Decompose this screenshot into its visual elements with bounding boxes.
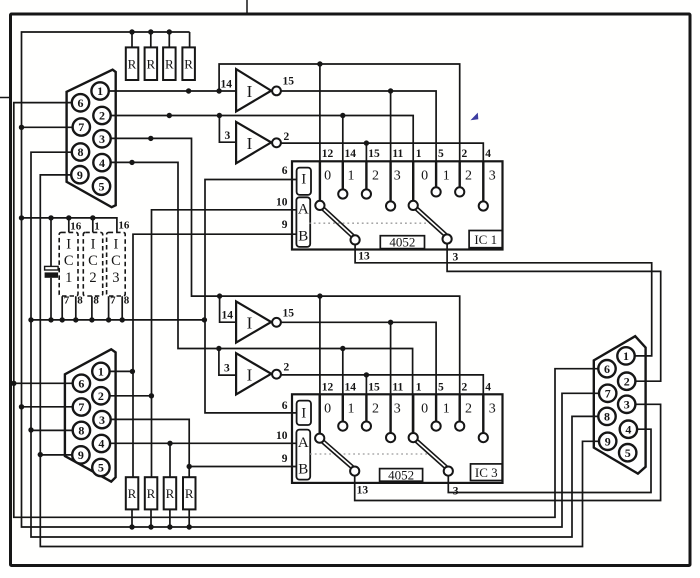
wire net: select A of IC1 from J2 pin2	[152, 210, 297, 477]
connector J2 pin 7	[73, 398, 90, 415]
IC3 name box	[471, 464, 503, 481]
wire net: J2 pin4 to select A of IC3	[109, 443, 296, 477]
junction J2 pin7 on left bus	[19, 404, 24, 409]
IC1 channel contacts	[315, 187, 488, 244]
IC1 A/B box	[296, 197, 310, 247]
junction R1 top on rail	[129, 29, 134, 34]
connector J1 pin 1	[91, 82, 108, 99]
IC3 channel digits	[324, 402, 496, 417]
resistor R5	[126, 477, 139, 509]
wire net: inhibit line pins 6 of both 4052	[205, 180, 297, 413]
resistor R2	[145, 47, 158, 80]
junction R5 bottom on ground rail	[129, 524, 134, 529]
capacitor C1	[45, 266, 59, 277]
wire net: J1 pin4 signal to lower half channels and inverter U4	[111, 162, 413, 433]
IC1 channel stubs	[320, 161, 483, 201]
junction Vcc bus left end	[19, 215, 24, 220]
resistor R1	[126, 47, 139, 80]
connector J3 pin 5	[619, 444, 636, 461]
IC1 inhibit box	[297, 168, 311, 195]
connector J2 pin 1	[92, 363, 109, 380]
inverter U2	[236, 122, 281, 163]
frame tick top	[246, 0, 248, 14]
wire net: J2 pin1 stub	[109, 370, 132, 372]
connector J3 shell	[594, 336, 646, 473]
wire net: inverter U3 output	[281, 322, 436, 433]
IC3 channel contacts	[315, 422, 488, 476]
connector J3 pin 9	[599, 433, 616, 450]
junction R7 top on J2 pin4 wire	[167, 441, 172, 446]
junction J2 pin2 to select A line	[149, 393, 154, 398]
IC 1 chip dashed outline	[59, 232, 78, 296]
connector J2 pin 4	[93, 435, 110, 452]
connector J3 pin 7	[599, 385, 616, 402]
connector J2 pin 9	[72, 446, 89, 463]
resistor R7	[164, 477, 177, 509]
blue scan artifact arrow	[471, 113, 479, 121]
junction ground bus left end	[28, 317, 33, 322]
IC1 pin numbers row	[322, 148, 491, 160]
inverter letters	[247, 82, 253, 385]
junction R3 bottom on pin2 wire	[167, 113, 172, 118]
connector J2 pin 2	[92, 387, 109, 404]
wire net: IC1 pin3 to J3 pin2	[447, 244, 661, 382]
IC1 switch arm 1	[322, 207, 354, 237]
IC3 switch arm 2	[415, 440, 447, 469]
wire net: IC3 pin3 to J3 pin4	[448, 429, 651, 492]
junction J1 pin2 branch to U2	[217, 113, 222, 118]
connector J2 pin 5	[92, 459, 109, 476]
multiplexer IC3 4052 box	[292, 394, 503, 483]
junction IC1 pin16 on Vcc bus	[66, 215, 71, 220]
junction pin3 wire branch to U3	[217, 293, 222, 298]
junction pin3 wire to IC3 channel 0	[317, 293, 322, 298]
junction ground bus to inhibit line	[202, 317, 207, 322]
connector J1 pin 6	[72, 94, 89, 111]
connector J3 pin 6	[598, 360, 615, 377]
IC3 switch arm 1	[322, 440, 354, 468]
IC3 dotted centre line	[310, 453, 430, 455]
resistor R8	[183, 477, 196, 509]
wire net: pin7 rail (top resistor rail, left bus, bottom bus, J3 pin7)	[22, 32, 600, 527]
junction pin4 wire branch to U4	[216, 346, 221, 351]
junction J1 pin7 on left bus	[19, 125, 24, 130]
junction pin1 wire to IC1 channel 0	[317, 61, 322, 66]
IC1 labels	[276, 165, 497, 250]
IC 2 chip dashed outline	[83, 232, 102, 296]
connector J1 pin 8	[72, 143, 89, 160]
connector J1 pin 4	[93, 154, 110, 171]
junction IC1 pin7 on ground bus	[60, 317, 65, 322]
frame tick left	[0, 97, 10, 99]
junction R4 bottom on pin1 wire	[186, 88, 191, 93]
resistors top bank	[126, 47, 196, 509]
wire net: J1 pin1 signal to inverter U1 and channels	[109, 64, 460, 201]
junction U2 output to IC1 channel 2	[364, 140, 369, 145]
resistor value letters	[128, 57, 194, 502]
IC1 dotted centre line	[309, 222, 430, 224]
resistor R4	[182, 47, 195, 80]
connector pin numbers	[77, 84, 632, 475]
logic IC pin labels	[64, 220, 130, 307]
multiplexer IC1 4052 box	[292, 161, 503, 249]
connector J1 shell	[67, 70, 116, 208]
junction R8 bottom on ground rail	[187, 524, 192, 529]
junction pin4 wire to IC3 channel 1	[340, 346, 345, 351]
connector J2 pin 8	[73, 422, 90, 439]
wire net: ground bus under ICs	[31, 278, 204, 320]
wire net: inverter U2 output	[281, 143, 483, 201]
connector J3 pin 4	[620, 421, 637, 438]
wire net: pin8 bus J1-J2-J3	[31, 152, 598, 537]
junction IC2 pin1 on Vcc bus	[90, 215, 95, 220]
IC3 channel stubs	[320, 394, 484, 433]
wire net: select B of IC1 from J2 pin1	[133, 234, 297, 477]
connector J1 pin 7	[73, 118, 90, 135]
wire net: Vcc bus to IC supply pins	[22, 218, 117, 267]
junction J2 pin1 to select B line	[130, 369, 135, 374]
IC3 inhibit box	[297, 401, 311, 425]
wire net: J1 pin2 signal to inverter U2 and channels	[111, 116, 414, 201]
inverter U4	[236, 353, 281, 394]
connector J1 pin 2	[93, 107, 110, 124]
IC3 pin numbers row	[322, 381, 491, 393]
junction J2 pin8 on left bus	[28, 427, 33, 432]
IC1 switch arm 2	[415, 207, 447, 236]
IC1 4052 label box	[380, 236, 424, 249]
J1 pins	[71, 82, 637, 476]
junction pin2 wire to IC1 channel 1	[340, 113, 345, 118]
junction R2 bottom on pin3 wire	[148, 136, 153, 141]
IC1 channel digits	[324, 168, 496, 183]
junction IC3 pin8 on ground bus	[120, 317, 125, 322]
junction R8 top on IC3 select B wire	[187, 464, 192, 469]
connector J3 pin 2	[618, 373, 635, 390]
junction U3 output to IC3 channel 3	[388, 320, 393, 325]
wire net: J1 pin3 signal to lower half channels and inverter U3	[111, 138, 460, 433]
connector J3 pin 3	[618, 396, 635, 413]
connector J3 pin 1	[617, 347, 634, 364]
junction IC3 pin7 on ground bus	[106, 317, 111, 322]
junction R2 top on rail	[148, 29, 153, 34]
IC3 A/B box	[296, 430, 310, 480]
IC3 labels	[276, 400, 498, 483]
wire net: J2 pin2 stub	[109, 395, 151, 397]
resistor R3	[163, 47, 176, 80]
inverter U3	[236, 301, 281, 342]
junction C1 top on Vcc bus	[48, 215, 53, 220]
resistor R6	[145, 477, 158, 509]
junction R6 bottom on ground rail	[148, 524, 153, 529]
wire net: inverter U4 output	[281, 375, 483, 433]
connector J3 pin 8	[598, 408, 615, 425]
junction IC2 pin8 on ground bus	[89, 317, 94, 322]
junction R7 bottom on ground rail	[167, 524, 172, 529]
junction R3 top on rail	[167, 29, 172, 34]
connector J2 pin 3	[93, 411, 110, 428]
IC3 4052 label box	[380, 469, 423, 482]
junction R1 bottom on pin4 wire	[129, 160, 134, 165]
wire net: IC1 pin13 to J3 pin1	[355, 244, 652, 356]
connector J1 pin 9	[71, 166, 88, 183]
connector J2 shell	[65, 349, 116, 481]
logic IC dashed boxes	[59, 232, 125, 296]
inverter pin labels	[221, 76, 295, 375]
wire net: pin9 bus J1-J2-J3	[40, 175, 599, 547]
IC1 pins 13 and 3 labels	[358, 251, 458, 264]
connector J2 pin 6	[73, 375, 90, 392]
IC1 name box	[469, 231, 502, 248]
IC 3 chip dashed outline	[107, 232, 126, 296]
junction IC1 pin8 on ground bus	[73, 317, 78, 322]
inverter U1	[236, 69, 281, 111]
wire net: J2 pin3 to select B of IC3	[111, 419, 297, 477]
junction U1 output to IC1 channel 3	[388, 88, 393, 93]
junction J2 pin9 on left bus	[38, 452, 43, 457]
connector J1 pin 3	[93, 130, 110, 147]
IC3 pins 13 and 3 labels	[357, 485, 459, 498]
wire net: IC3 pin13 to J3 pin3	[355, 404, 661, 500]
junction C1 bottom on ground bus	[48, 317, 53, 322]
logic IC texts	[64, 237, 121, 287]
junction J1 pin1 branch	[216, 88, 221, 93]
wire net: pin6 bus J1-J2-J3	[14, 103, 599, 518]
connector J1 pin 5	[93, 178, 110, 195]
wire net: inverter U1 output	[281, 91, 436, 201]
junction J2 pin6 on left bus	[11, 381, 16, 386]
junction U4 output to IC3 channel 2	[364, 372, 369, 377]
